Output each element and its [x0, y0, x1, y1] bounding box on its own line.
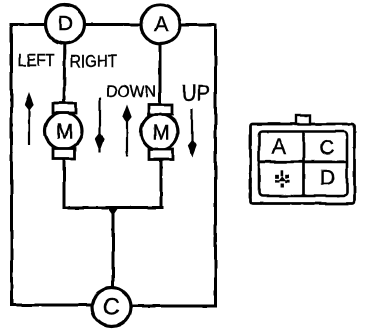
wire from terminal D down to motor M1: [63, 44, 67, 105]
wire from terminal A down to motor M2: [159, 44, 162, 106]
connector housing outer: [251, 124, 355, 204]
svg-text:DOWN: DOWN: [106, 83, 156, 101]
svg-text:C: C: [319, 137, 334, 160]
wire from terminal D to terminal A: [84, 23, 141, 26]
wire from motor M1 down to bus: [63, 158, 66, 208]
junction node: [107, 206, 120, 216]
wire bottom-left from terminal C to left corner: [12, 304, 94, 307]
connector pin symbol asterisk: [275, 170, 290, 187]
connector housing inner: [259, 132, 347, 197]
svg-text:UP: UP: [182, 81, 211, 106]
svg-text:D: D: [320, 167, 335, 190]
svg-text:RIGHT: RIGHT: [70, 51, 117, 71]
motor M1: [45, 103, 82, 159]
arrow up (left of motor M1): [24, 93, 33, 146]
terminal D: [46, 5, 85, 44]
connector tab: [296, 116, 310, 125]
wire bus between motors: [64, 206, 162, 209]
wire from junction down to terminal C: [112, 208, 115, 288]
connector divider vertical: [302, 132, 305, 197]
arrow down (left of up arrow between motors): [95, 99, 104, 153]
svg-text:A: A: [154, 13, 168, 36]
arrow up (between motors): [122, 105, 131, 157]
wire from motor M2 down to bus: [160, 159, 163, 208]
wire right border: [214, 25, 217, 306]
arrow down (right of motor M2): [187, 109, 196, 158]
svg-text:D: D: [58, 13, 73, 36]
motor M2: [141, 105, 178, 160]
svg-text:A: A: [272, 136, 286, 159]
wire bottom-right to terminal C: [130, 305, 216, 308]
wire from terminal A to top-right corner: [180, 24, 216, 27]
wire left border: [10, 25, 13, 306]
svg-text:M: M: [152, 122, 170, 145]
terminal C: [92, 288, 131, 327]
svg-text:M: M: [56, 121, 74, 144]
svg-text:C: C: [103, 294, 120, 320]
svg-text:LEFT: LEFT: [18, 50, 55, 70]
terminal A: [141, 5, 180, 44]
wire top from left corner to terminal D: [11, 23, 46, 26]
connector divider horizontal: [259, 160, 347, 163]
